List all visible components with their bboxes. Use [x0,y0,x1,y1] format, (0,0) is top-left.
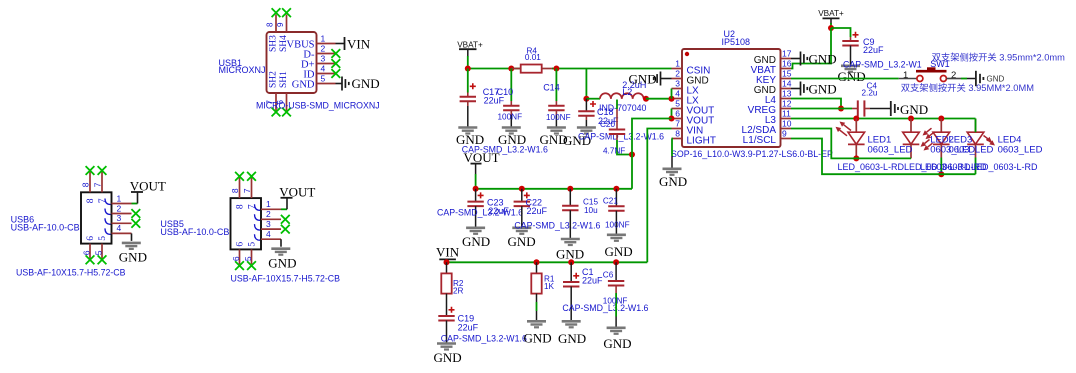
LED4 emission arrow 2 [987,139,996,146]
svg-text:2: 2 [675,69,680,79]
USB5 bottom pins [240,249,252,264]
net flag VIN [345,37,371,52]
svg-text:MICRO-USB-SMD_MICROXNJ: MICRO-USB-SMD_MICROXNJ [256,101,380,111]
wire pin8 LIGHT to ground [671,139,674,169]
junction VBAT/C17 [465,66,471,72]
net flag VIN above bus [436,244,460,259]
ground C15 10u [561,239,580,245]
USB1 pin numbers 1-5 [321,34,326,84]
svg-text:SH1: SH1 [279,71,289,88]
label Chinese switch spec bottom [901,82,1034,93]
label CAP-SMD_L3.2-W1 for C9 [843,59,922,69]
no-connect X pin6 [282,108,291,117]
ground C19 [437,344,456,350]
wire [791,118,976,120]
USB6 net flag VOUT [130,179,166,194]
junction C10 [508,66,514,72]
USB6 no-connect X pin7 [98,166,107,175]
USB5 inside pin names 8 7 6 5 [236,204,258,247]
junction R1 [534,259,540,265]
svg-text:0603_LED: 0603_LED [949,145,994,156]
svg-text:GND: GND [900,102,928,117]
USB6 wire pin4 to GND [131,233,133,241]
wire C20 bottom [617,134,632,155]
no-connect X pin7 [272,108,281,117]
capacitor C20 plates [609,130,625,135]
capacitor C21 100NF [615,189,617,207]
ground flag bars U2 pin17 [801,52,808,66]
junction LED3 cathode [938,171,944,177]
LED1 0603_LED [848,119,865,145]
wire [831,28,851,37]
ground C23 22uF [466,228,485,234]
svg-text:C20: C20 [600,120,615,129]
ground label GND C10 [498,132,526,147]
svg-text:100NF: 100NF [603,297,628,306]
wire [671,89,673,99]
capacitor C18 plates [578,111,594,116]
junction C15 [567,186,573,192]
capacitor C23 22uF plates [467,192,483,206]
label LED1 [868,134,913,155]
svg-text:8: 8 [81,182,91,187]
wire [791,129,911,159]
ground label GND C15 10u [556,247,584,262]
ground label GND at C4 [900,102,928,117]
junction VBAT+/C9 [828,25,834,31]
label CAP-SMD_L3.2-W1.6 for C17 [462,145,548,155]
ground label GND C18 [563,133,591,148]
junction VOUT pin6 [669,116,675,122]
USB5 wire pin1 to VOUT [281,198,287,209]
USB1 pin numbers 8 9 [266,22,286,27]
USB5 no-connect X pin2 [281,215,290,224]
svg-text:3: 3 [117,213,122,223]
label C23 22uF [487,198,509,217]
ground flag bars U2 pin14 [801,82,808,96]
svg-text:6: 6 [82,250,92,255]
svg-text:LIGHT: LIGHT [687,136,716,147]
wire [585,69,587,99]
USB6 no-connect X pin3 [131,219,140,228]
svg-text:4.7NF: 4.7NF [603,147,625,156]
wire pin1 to VIN [336,43,345,45]
svg-text:5: 5 [98,236,108,241]
ground C22 22uF [512,228,531,234]
svg-text:6: 6 [86,236,96,241]
svg-text:LED_0603-L-RD: LED_0603-L-RD [971,162,1038,172]
wire [632,119,672,189]
label L2 2.2uH IND-707040 [599,80,647,113]
LED3 0603_LED [933,119,950,145]
capacitor C15 10u plates [562,206,578,211]
no-connect X pin4 [331,69,340,78]
svg-text:2: 2 [321,44,326,54]
USB5 ground [271,249,290,255]
svg-text:CAP-SMD_L3.2-W1.6: CAP-SMD_L3.2-W1.6 [437,207,523,217]
LED1 emission arrow 1 [840,122,852,131]
USB5 wire pin4 to GND [280,239,282,247]
wire C6 to ground [615,286,617,328]
svg-text:VBAT+: VBAT+ [818,9,844,18]
svg-text:4: 4 [266,229,271,239]
svg-text:5: 5 [675,99,680,109]
svg-text:22uF: 22uF [527,206,548,216]
USB1 right pins 1-5 stubs [317,44,336,84]
svg-text:1: 1 [321,34,326,44]
label USB6 designator [11,214,80,232]
ground label GND C17 [456,132,484,147]
no-connect X pin9 [282,8,291,17]
svg-text:2: 2 [117,203,122,213]
ground C10 [502,128,521,134]
wire LED2 cathode [910,144,912,158]
junction C22 [519,186,525,192]
ground C18 [577,128,596,134]
label C17 22uF [483,87,505,106]
wire C18 to ground [585,116,587,127]
capacitor C21 100NF plates [608,206,624,211]
label USB6 footprint USB-AF-10X15.7-H5.72-CB [16,268,126,278]
ground C6 [607,328,626,334]
svg-text:SH2: SH2 [269,71,279,88]
svg-text:GND: GND [119,250,147,265]
svg-text:C14: C14 [543,83,560,93]
svg-text:13: 13 [782,89,792,99]
svg-text:VIN: VIN [436,244,460,259]
LED3 emission arrow 1 [923,128,932,135]
junction C14 [553,66,559,72]
junction C1 [568,259,574,265]
USB5 pin numbers 1-4 [266,199,271,239]
label U2 designator [722,29,751,47]
capacitor C4 2.2u [858,100,865,116]
wire C10 to ground [510,110,512,127]
wire LED4 cathode [975,144,977,174]
wire SW1 to ground [946,78,975,80]
svg-text:8: 8 [266,22,275,27]
ground C14 [547,128,566,134]
svg-text:USB-AF-10.0-CB: USB-AF-10.0-CB [11,222,80,232]
ground label GND U2 pin2 [629,71,657,86]
LED2 emission arrow 2 [924,143,933,150]
wire [467,56,469,69]
wire C9 to ground [850,46,852,66]
USB5 no-connect X pin6 [235,261,244,270]
USB5 no-connect X pin3 [281,225,290,234]
ground flag at C4 [891,101,898,116]
ground LIGHT [663,169,682,175]
wire [646,98,672,100]
wire [791,28,831,69]
svg-text:L2: L2 [622,87,632,97]
svg-text:GND: GND [292,80,315,91]
USB5 no-connect X pin7 [247,172,256,181]
svg-text:1K: 1K [544,282,555,291]
svg-text:GND: GND [809,51,837,66]
svg-text:GND: GND [605,244,633,259]
USB6 no-connect X pin6 [86,255,95,264]
svg-text:5: 5 [94,250,104,255]
capacitor C10 plates [503,106,519,111]
USB6 ground label GND [119,250,147,265]
wire [975,119,977,133]
label LED_0603-L-RD footprints [838,162,1039,172]
ground C17 [458,128,477,134]
LED4 emission arrow 1 [984,136,993,143]
svg-text:LED_0603-L-RD: LED_0603-L-RD [838,162,905,172]
junction R2 [444,259,450,265]
wire C17 to ground [467,101,469,127]
junction L2 right [643,96,649,102]
USB6 outside pin numbers 8 7 [81,182,103,187]
USB6 no-connect X pin8 [86,166,95,175]
ground C9 [841,66,860,72]
svg-text:C6: C6 [603,271,614,280]
wire C22 22uF to ground [521,206,523,227]
svg-text:100NF: 100NF [605,221,630,230]
U2 left pin stubs 1-8 [672,69,683,139]
svg-text:22uF: 22uF [863,45,884,55]
svg-text:10: 10 [782,119,792,129]
svg-text:GND: GND [508,234,536,249]
capacitor C20 4.7NF [616,100,618,130]
label CAP-SMD_L3.2-W1.6 for C23 [437,207,523,217]
LED2 0603_LED [903,119,920,145]
wire [647,129,671,263]
svg-text:SOP-16_L10.0-W3.9-P1.27-LS6.0-: SOP-16_L10.0-W3.9-P1.27-LS6.0-BL-EP [671,149,833,159]
USB6 pin numbers 1-4 [117,193,122,233]
ground label GND C23 22uF [462,234,490,249]
ground flag at U2 pin2 [661,78,672,80]
svg-text:L1/SCL: L1/SCL [743,135,777,146]
svg-text:VOUT: VOUT [279,184,315,199]
capacitor C6 plates [608,281,624,286]
wire [447,261,648,263]
U2 left pin numbers 1-8 [675,59,680,139]
wire C19 to ground [446,321,448,344]
svg-text:GND: GND [434,350,462,365]
junction C6 [613,259,619,265]
wire C4 to ground [864,108,890,110]
label C10 100NF [497,87,522,121]
USB5 no-connect X pin8 [235,172,244,181]
label LED4 [998,134,1043,155]
wire VBAT+ stem right [830,23,832,28]
svg-text:GND: GND [809,81,837,96]
capacitor C14 100NF [555,69,557,106]
switch SW1 [916,67,947,81]
svg-text:10u: 10u [584,206,598,215]
svg-text:9: 9 [782,129,787,139]
svg-text:22uF: 22uF [458,323,479,333]
label R2 2R [453,279,464,295]
capacitor C23 22uF [475,189,477,202]
svg-text:1: 1 [675,59,680,69]
wire C23 22uF to ground [475,206,477,227]
svg-text:GND: GND [498,132,526,147]
USB6 outside pin numbers 6 5 [82,250,104,255]
svg-text:IP5108: IP5108 [722,37,751,47]
svg-text:2.2u: 2.2u [862,89,878,98]
junction L4/VREG [838,106,844,112]
label U2 footprint SOP-16 [671,149,833,159]
label C21 100NF [603,197,630,230]
svg-text:4: 4 [321,64,326,74]
svg-text:11: 11 [782,109,791,119]
label C1 22uF [582,267,603,286]
USB5 ground label GND [268,256,296,271]
USB5 outside pin numbers 8 7 [230,188,252,193]
ground label GND U2 pin14 [809,81,837,96]
capacitor C22 22uF [521,189,523,202]
label Chinese switch spec top [932,51,1066,62]
USB5 no-connect X pin5 [247,261,256,270]
capacitor C22 22uF plates [514,192,530,206]
svg-text:8: 8 [675,129,680,139]
wire C15 10u to ground [569,210,571,238]
svg-text:VOUT: VOUT [464,150,500,165]
ground label GND C9 [838,69,866,84]
USB1 bottom shield pins SH2 SH1 [276,93,287,111]
label CAP-SMD_L3.2-W1.6 for C1 [562,303,648,313]
svg-text:3: 3 [321,54,326,64]
connector USB6 USB-AF symbol box [81,192,112,243]
label USB5 designator [160,219,229,237]
U2 right pin stubs 17-9 [781,59,792,139]
USB6 no-connect X pin5 [98,255,107,264]
resistor R4 [511,65,553,73]
label R4 0.01 [525,47,541,63]
ground label GND LIGHT [659,174,687,189]
wire C21 100NF to ground [615,211,617,235]
ground R1 [527,321,546,327]
label C22 22uF [526,198,548,217]
svg-text:2: 2 [951,70,956,81]
USB5 net flag VOUT [279,184,315,199]
wire [552,68,672,70]
resistor R2 body [441,273,451,293]
ground label GND C21 100NF [605,244,633,259]
LED3 emission arrow 2 [926,132,935,139]
junction LED1 anode [853,116,859,122]
svg-text:16: 16 [782,59,792,69]
ground label GND R1 [524,331,552,346]
ground flag at USB1 pin5 [342,77,349,91]
no-connect X pin3 [331,59,340,68]
junction C18/L2 [583,96,589,102]
svg-text:USB-AF-10.0-CB: USB-AF-10.0-CB [160,227,229,237]
resistor R1 1K [536,262,538,273]
label USB5 footprint USB-AF-10X15.7-H5.72-CB [231,274,341,284]
svg-text:GND: GND [629,71,657,86]
no-connect X pin8 [272,8,281,17]
LED2 emission arrow 1 [921,140,930,147]
svg-text:3: 3 [675,79,680,89]
USB6 contact hooks [105,199,111,235]
USB5 contact hooks [255,204,261,240]
svg-text:1: 1 [117,193,122,203]
svg-text:100NF: 100NF [498,113,523,122]
ground flag at SW1 [976,71,984,86]
svg-text:USB-AF-10X15.7-H5.72-CB: USB-AF-10X15.7-H5.72-CB [231,274,341,284]
ground label GND U2 pin17 [809,51,837,66]
capacitor C17 plates [460,83,476,101]
svg-text:GND: GND [603,336,631,351]
label CAP-SMD_L3.2-W1.6 for C18 [578,132,664,142]
ground flag at U2 pin14 [791,88,800,90]
wire pin5 to GND [336,83,342,85]
junction LED1 cathode [853,155,859,161]
ground flag bars U2 pin2 [654,72,661,86]
USB5 outside pin numbers 6 5 [231,256,253,261]
USB1 top shield pins SH3 SH4 [276,15,287,33]
ground label GND at SW1 [987,74,1005,83]
wire LED3 cathode [940,144,942,174]
capacitor C18 22uF [586,99,596,112]
svg-text:6: 6 [675,109,680,119]
capacitor C1 22uF [570,262,572,282]
wire R2 to C19 [446,294,448,316]
svg-text:GND: GND [524,331,552,346]
inductor L2 2.2uH [586,93,646,98]
label C6 100NF [603,271,628,306]
resistor R2 2R [446,262,448,273]
junction C20/VOUT [629,152,635,158]
label SW1 [930,59,950,69]
ground label GND C19 [434,350,462,365]
connector USB1 MICROXNJ symbol box [267,32,317,93]
svg-text:双支架侧按开关 3.95MM*2.0MM: 双支架侧按开关 3.95MM*2.0MM [901,82,1034,93]
svg-text:C21: C21 [603,197,618,206]
no-connect X pin2 [331,49,340,58]
capacitor C17 22uF [467,69,469,97]
svg-text:8: 8 [86,198,96,203]
USB6 wire pin1 to VOUT [132,193,138,204]
capacitor C1 plates [563,273,579,287]
resistor R1 body [531,273,541,293]
svg-text:CAP-SMD_L3.2-W1.6: CAP-SMD_L3.2-W1.6 [514,220,600,230]
label CAP-SMD_L3.2-W1.6 for C22 [514,220,600,230]
USB6 inside pin names 8 7 6 5 [86,198,108,241]
ground label GND [352,76,380,91]
svg-text:7: 7 [242,188,252,193]
net flag VOUT above bus [464,150,500,165]
label C18 22uF C20 [597,107,619,129]
USB6 top pins [90,172,102,193]
wire C1 to ground [570,287,572,321]
svg-text:7: 7 [675,119,680,129]
USB6 right pin stubs [112,204,132,234]
svg-text:4: 4 [675,89,680,99]
ground flag at U2 pin17 [791,58,800,60]
svg-text:100NF: 100NF [546,113,571,122]
junction C23 [473,186,479,192]
capacitor C9 plates [842,32,858,46]
capacitor C15 10u [569,189,571,206]
svg-text:7: 7 [93,182,103,187]
wire [671,109,673,119]
svg-text:GND: GND [838,69,866,84]
U2 right pin numbers 17-9 [782,49,792,139]
junction LED3 anode [938,116,944,122]
svg-text:5: 5 [243,256,253,261]
junction LX pin4 [669,96,675,102]
label C14 100NF [543,83,570,123]
USB1 pin names VBUS D- D+ ID GND [286,40,315,91]
svg-text:MICROXNJ: MICROXNJ [219,65,266,75]
ground label GND C1 [558,331,586,346]
